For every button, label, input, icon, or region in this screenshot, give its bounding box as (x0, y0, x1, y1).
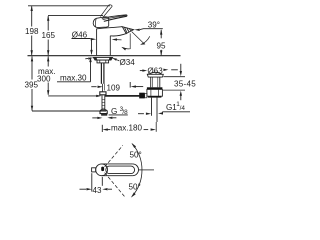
svg-text:35-45: 35-45 (174, 80, 196, 89)
plan view tab (92, 168, 96, 172)
wire ref line max300 bottom / 109 dim (48, 95, 97, 97)
plan view grip (106, 166, 135, 174)
svg-text:50°: 50° (129, 183, 141, 192)
dimension Ø34 arrows (85, 57, 88, 59)
supply collar (100, 92, 106, 95)
wire ref line lever-top (165) (48, 15, 103, 17)
drain tailpipe (151, 98, 153, 116)
annotation arc lower (123, 47, 131, 48)
svg-text:50°: 50° (130, 151, 142, 160)
dimension 35-45 (180, 64, 182, 72)
wire ref line 395 bottom (32, 110, 106, 112)
svg-text:39°: 39° (148, 20, 160, 29)
plan view outer capsule (96, 164, 108, 176)
svg-text:Ø63: Ø63 (147, 66, 163, 75)
svg-text:max.30: max.30 (60, 73, 87, 82)
supply hose flare nut (100, 110, 107, 114)
dimension 198 line (31, 6, 33, 26)
supply threaded stud (100, 63, 102, 84)
dimension 395 line (31, 56, 33, 79)
annotation vertical line (129, 33, 131, 48)
drain locknut (147, 89, 163, 96)
svg-text:300: 300 (37, 75, 51, 84)
dimension 95 line (160, 30, 162, 39)
swing arc (132, 144, 142, 196)
wire ref line lever-top raised (198) (28, 5, 110, 7)
faucet body right edge (109, 36, 111, 55)
svg-text:Ø34: Ø34 (120, 58, 136, 67)
raised lever phantom (100, 5, 109, 17)
drain outlet spigot (139, 93, 145, 99)
drain Ø63 arrows (140, 70, 144, 72)
svg-text:95: 95 (157, 42, 167, 51)
mounting nut (97, 60, 109, 63)
drain plug dome (149, 72, 162, 74)
dimension leader Ø46 (72, 38, 91, 40)
dimension max.30 leader (57, 81, 91, 83)
annotation stream line (132, 32, 144, 44)
dimension max300 line (47, 56, 49, 66)
annotation 39 degree ref line (140, 28, 163, 31)
svg-text:198: 198 (25, 27, 39, 36)
svg-text:165: 165 (42, 31, 56, 40)
spout underside (110, 34, 126, 36)
svg-text:Ø46: Ø46 (72, 31, 88, 40)
svg-text:/4: /4 (180, 105, 186, 112)
wire drain outlet line (105, 95, 140, 97)
svg-text:43: 43 (93, 186, 103, 195)
wire deck line (28, 55, 181, 57)
svg-text:G: G (111, 107, 117, 116)
handle cap (93, 17, 109, 28)
wire ref locknut top (163, 89, 185, 91)
dimension max.180 (101, 125, 103, 132)
annotation arrow at body (112, 38, 117, 40)
drain seal (147, 87, 163, 89)
faucet body left edge (96, 29, 98, 56)
drain flange (147, 74, 163, 77)
main lever blade (102, 15, 127, 19)
label G1 1/4 leader (162, 111, 190, 113)
faucet shoulder (97, 27, 104, 30)
supply pipe (101, 95, 103, 109)
wire ref flange underside (163, 76, 185, 78)
svg-text:/8: /8 (122, 109, 128, 116)
svg-text:max.180: max.180 (111, 124, 143, 133)
dashed ray lower 50 (105, 173, 125, 197)
dimension 43 (91, 173, 93, 191)
label G3/8 arrows (92, 117, 98, 119)
plan view centerline (139, 169, 154, 171)
dashed ray upper 50 (105, 145, 123, 167)
spout nose / aerator (122, 27, 133, 34)
dimension 165 line (47, 16, 49, 31)
spout top edge (104, 27, 122, 28)
svg-text:109: 109 (107, 83, 121, 92)
annotation arc 39 (141, 36, 150, 44)
plan view pivot dot (101, 167, 104, 172)
drain body (150, 77, 152, 87)
mounting washer (93, 57, 112, 60)
dimension G1 arrow left (138, 113, 144, 115)
label G3/8 underline (109, 114, 128, 116)
wire ext tailpipe (155, 122, 157, 132)
dimension 109 arrows (91, 86, 96, 88)
